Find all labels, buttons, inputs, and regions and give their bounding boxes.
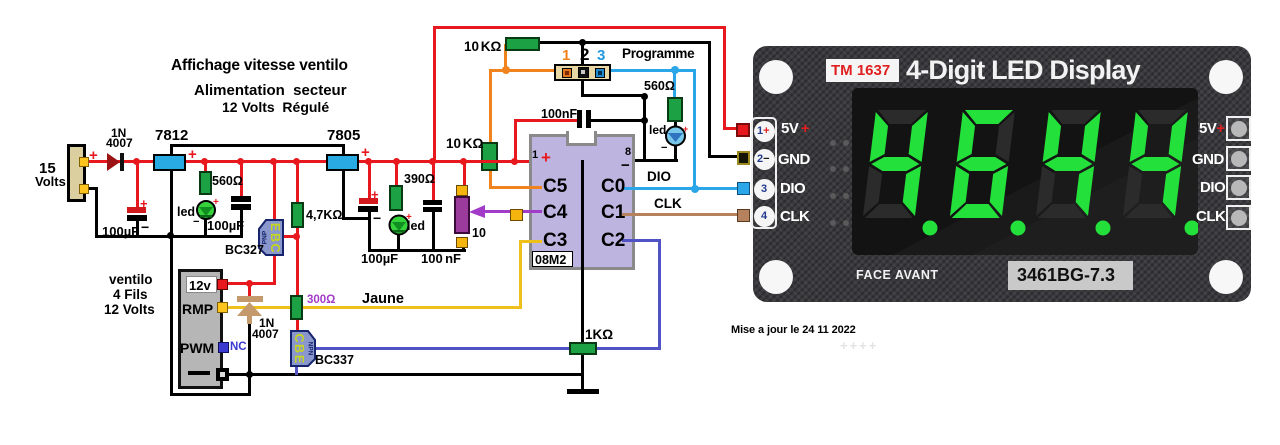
label C0 (601, 177, 625, 196)
pin pot top square (456, 185, 468, 196)
resistor R3 300 (290, 295, 303, 320)
diode D2 1N4007 flyback (236, 294, 264, 326)
connector J1 15 Volts (67, 144, 86, 202)
wire 15V minus out (85, 187, 98, 190)
wire 7812 ground leg (170, 168, 173, 396)
label module CLK right (1196, 209, 1225, 224)
capacitor C5 100nF chip (577, 110, 582, 128)
label C2 100uF (207, 219, 244, 232)
label C4 (543, 203, 567, 222)
pin J1 minus (79, 184, 89, 194)
wire ground into pin2 (708, 155, 739, 158)
label R6 10K (464, 40, 501, 54)
pin stub C0 blue (622, 187, 635, 190)
label R5 10K (446, 137, 483, 151)
label 4-Digit LED Display (906, 57, 1140, 84)
capacitor C2 100uF (231, 196, 251, 202)
wire programme pin2 upper leg (581, 42, 584, 67)
label module GND left (778, 152, 810, 167)
wire end square CLK (737, 209, 750, 222)
wire 1K to BC337 base (311, 347, 573, 350)
resistor R2 47K (291, 202, 304, 228)
label 300 ohm (307, 295, 335, 307)
dp 1 (923, 221, 938, 236)
label prog 3 (597, 48, 605, 63)
label 390 (404, 173, 435, 186)
wire serial orange into C5 (489, 186, 543, 189)
svg-text:+: + (683, 124, 688, 134)
module left header outline (751, 117, 777, 229)
label pin8 minus (621, 158, 630, 173)
regulator U1 7812 (153, 154, 186, 171)
pin J1 plus (79, 157, 89, 167)
right header hole circles (1231, 121, 1247, 137)
wire 100nF chip cap ground side (591, 119, 645, 122)
node BC327 base junction (293, 233, 300, 240)
label C1 100uF (102, 225, 139, 238)
pin stub C2 violet (622, 239, 635, 242)
pin stub C1 brown (622, 213, 635, 216)
wire chip ground drop (581, 160, 584, 390)
label ventilo 4 Fils 12 Volts (109, 273, 153, 287)
wire 390 ohm branch (395, 162, 398, 186)
digit 2 value 6 (950, 110, 1015, 218)
wire ground top run to module (540, 41, 711, 44)
label C1 (601, 203, 625, 222)
label pot 10 (472, 227, 486, 240)
label prog 1 (562, 48, 570, 63)
label Jaune (362, 292, 404, 307)
svg-text:E: E (268, 223, 282, 231)
wire led2 cathode (397, 235, 400, 250)
pin pot bottom square (456, 237, 468, 248)
label C3 100uF (361, 252, 398, 265)
wire chip ground over body (581, 160, 584, 270)
wire BC327 emitter branch (273, 162, 276, 220)
wire serial orange riser (489, 69, 492, 143)
display window with digits (852, 88, 1198, 255)
wire serial orange stub from 10K (504, 44, 507, 72)
wire 7805 ground link (342, 217, 371, 220)
wire yellow into C3 (519, 240, 540, 243)
pin 12v red (217, 279, 228, 290)
wire C2 minus (240, 210, 243, 236)
label led3 (649, 124, 666, 136)
wire ground drop to module pin2 (708, 41, 711, 157)
wire 5V drop to module pin1 (723, 26, 726, 130)
resistor R7 560 led3 (667, 97, 683, 122)
dp 4 (1185, 221, 1200, 236)
wire end square DIO (737, 182, 750, 195)
pin RMP yellow (217, 302, 228, 313)
connector J3 programme (554, 64, 611, 81)
label 7812 (155, 128, 188, 143)
wire 100nF minus (432, 211, 435, 250)
arrow purple wiper (469, 205, 486, 219)
potentiometer P1 (454, 196, 470, 234)
wire blue drop to 560 ohm (673, 69, 676, 98)
wire fan ground rail (228, 373, 584, 376)
digit 4 value 4 (1123, 110, 1188, 218)
label module GND right (1192, 152, 1224, 167)
hole bottom left (759, 260, 793, 294)
node 12v fan junction (246, 280, 253, 287)
label C4 100nF (421, 252, 461, 265)
label C2 (601, 231, 625, 250)
label module 5V right (1199, 121, 1225, 136)
label module CLK left (780, 209, 809, 224)
note Mise a jour (731, 325, 856, 336)
pin PWM blue (218, 342, 229, 353)
wire led3 anode stub (674, 119, 677, 129)
dp 3 (1096, 221, 1111, 236)
module TM1637 PCB (753, 46, 1251, 302)
svg-text:+: + (213, 197, 219, 208)
capacitor C3 100uF (359, 198, 378, 204)
title Alimentation secteur (194, 83, 347, 98)
led LED2 green (388, 211, 416, 238)
wire BC337 emitter to ground (295, 366, 298, 375)
wire DIO line to module (625, 187, 739, 190)
label plus after 7805 (361, 145, 370, 160)
wire pin8 ground run (581, 159, 678, 162)
wire 12v to fan connector (227, 282, 276, 285)
ic U3 PICAXE 08M2 body (529, 134, 635, 270)
wire C2 violet drop (658, 239, 661, 349)
wire rail crossing over R5 (481, 160, 498, 163)
label D2 1N 4007 (259, 317, 274, 329)
wire 100nF chip cap riser (514, 119, 517, 164)
pin ground minus (188, 371, 210, 375)
wire end square GND (737, 151, 750, 165)
label module DIO right (1200, 180, 1225, 195)
label C5 (543, 177, 567, 196)
wire violet to 1K (594, 347, 661, 350)
label 1K (585, 328, 613, 342)
wire 100nF branch (432, 162, 435, 201)
label pin1 (532, 150, 538, 161)
label D1 1N 4007 (111, 127, 126, 139)
wire wiper purple to C4 (478, 210, 544, 213)
wire 5V riser (433, 26, 436, 163)
label led2 (407, 220, 425, 233)
wire led3 cathode (674, 146, 677, 161)
connector J2 ventilo (178, 269, 223, 389)
wire yellow riser to C3 (519, 240, 522, 309)
transistor Q1 BC327 (256, 217, 287, 258)
wire ground rail input section (95, 235, 243, 238)
label prog 2 (580, 46, 589, 63)
label plus after 7812 (188, 147, 197, 162)
node black junctions (579, 39, 586, 46)
svg-text:C: C (268, 243, 282, 252)
label pin1 plus (541, 149, 551, 166)
label 08M2 (532, 251, 573, 267)
label 3461BG-7.3 (1008, 261, 1133, 290)
wire diode D2 stub (248, 282, 251, 298)
digit 1 value 4 (863, 110, 928, 218)
wire D2 cathode to ground (248, 322, 251, 374)
label plus after J1 (89, 148, 98, 163)
label R1 560 (212, 175, 243, 188)
wire DIO blue from programme pin3 (604, 69, 696, 72)
wire C1 capacitor branch (136, 162, 139, 208)
label pin8 (625, 147, 631, 158)
label RMP (182, 302, 213, 316)
dp 2 (1011, 221, 1026, 236)
hole top left (759, 60, 793, 94)
title 12 Volts Regule (222, 100, 329, 114)
label NC (230, 342, 247, 354)
label R7 560 (644, 80, 675, 93)
ground symbol (567, 389, 599, 394)
label DIO (647, 170, 671, 184)
hole top right (1209, 60, 1243, 94)
wire BC327 collector down (273, 254, 276, 285)
label 15 Volts (39, 161, 56, 176)
label led1 (177, 206, 195, 219)
wire 100nF chip cap run (514, 119, 578, 122)
arrow yellow into C3 (534, 234, 550, 248)
node orange junction (502, 66, 510, 74)
label 12v on white (186, 276, 217, 293)
wire potentiometer branch (463, 162, 466, 187)
wire CLK line to module (625, 213, 739, 216)
label PWM (180, 341, 214, 355)
wire ground bottom link (170, 393, 251, 396)
wire 5V top run to module (433, 26, 726, 29)
capacitor C1 100uF (127, 207, 146, 213)
svg-text:C: C (292, 333, 306, 342)
wire C3 minus (368, 211, 371, 251)
pin prog3 blue (595, 68, 605, 78)
node blue junctions (671, 66, 679, 74)
wire programme pin2 ground run (581, 94, 645, 97)
transistor Q2 BC337 (287, 328, 318, 369)
wire +V main rail (88, 160, 531, 163)
label C3 (543, 231, 567, 250)
watermark faint crosses (840, 339, 878, 352)
title Affichage vitesse ventilo (171, 58, 348, 74)
label 47K (306, 209, 342, 222)
digit 3 value 4 (1036, 110, 1101, 218)
wire ground rail 5V section (368, 249, 466, 252)
wire pot bottom (462, 245, 465, 251)
module pin circle 2 (754, 149, 775, 170)
module pin circle 4 (754, 206, 775, 227)
wire 47K bottom to base node (296, 227, 299, 238)
wire ground net riser near chip (643, 95, 646, 161)
wire RMP yellow run Jaune (228, 306, 522, 309)
label BC327 (225, 244, 264, 257)
label module DIO left (780, 181, 805, 196)
node rail junctions red (133, 158, 140, 165)
wire C3 capacitor branch (368, 162, 371, 199)
wire 7805 ground leg (342, 168, 345, 220)
wire C2 capacitor branch (240, 162, 243, 197)
label CLK (654, 197, 682, 211)
wire BC327 base link (283, 235, 299, 238)
svg-text:NPN: NPN (307, 342, 314, 356)
module pin circle 3 (754, 179, 775, 200)
ic notch (566, 131, 597, 146)
svg-text:B: B (292, 344, 306, 353)
label BC337 (315, 354, 354, 367)
wire 5V into pin1 (723, 127, 739, 130)
pin stub C5 orange (529, 186, 542, 189)
test point square on C4 line (510, 209, 523, 221)
module right header (1226, 116, 1251, 141)
wire blue drop to DIO line (693, 69, 696, 190)
wire C1 minus (136, 219, 139, 236)
wire serial orange below resistor (489, 170, 492, 189)
solder pads (830, 140, 836, 146)
pin stub C3 yellow (529, 240, 542, 243)
wire base node to 300 ohm (296, 235, 299, 296)
wire serial orange run to programme pin1 (489, 69, 566, 72)
wire end square 5V (736, 123, 750, 137)
resistor R8 1K (569, 342, 597, 355)
capacitor C4 100nF (423, 200, 442, 205)
wire C2 violet stub (625, 239, 661, 242)
wire R 560 branch (204, 162, 207, 172)
label 7805 (327, 128, 360, 143)
wire led1 cathode (204, 218, 207, 236)
diode D1 1N4007 (106, 152, 126, 172)
label TM 1637 (826, 59, 899, 82)
wire regulator top bracket (170, 144, 173, 156)
label FACE AVANT (856, 269, 939, 282)
pin stub C4 purple (529, 210, 542, 213)
regulator U2 7805 (326, 154, 359, 171)
resistor R1 560 (199, 171, 212, 195)
led LED3 blue (664, 124, 690, 149)
pin prog1 orange (562, 68, 572, 78)
pin prog2 black (578, 67, 589, 78)
wire 47K top branch (296, 162, 299, 203)
wire 300 ohm to BC337 collector (296, 318, 299, 334)
wire 15V minus drop (95, 187, 98, 238)
svg-text:B: B (268, 233, 282, 242)
label C5 100nF (541, 108, 577, 121)
svg-text:E: E (292, 355, 306, 363)
resistor R5 10K serial (481, 142, 498, 171)
resistor R6 10K pulldown horizontal (505, 37, 540, 51)
module pin circle 1 (754, 121, 775, 142)
led LED1 green (195, 196, 223, 223)
resistor R4 390 (389, 185, 403, 211)
hole bottom right (1209, 260, 1243, 294)
wire ground bottom riser (248, 374, 251, 396)
wire programme pin2 lower leg (581, 79, 584, 96)
label module 5V left (781, 121, 809, 136)
label Programme (622, 47, 694, 61)
